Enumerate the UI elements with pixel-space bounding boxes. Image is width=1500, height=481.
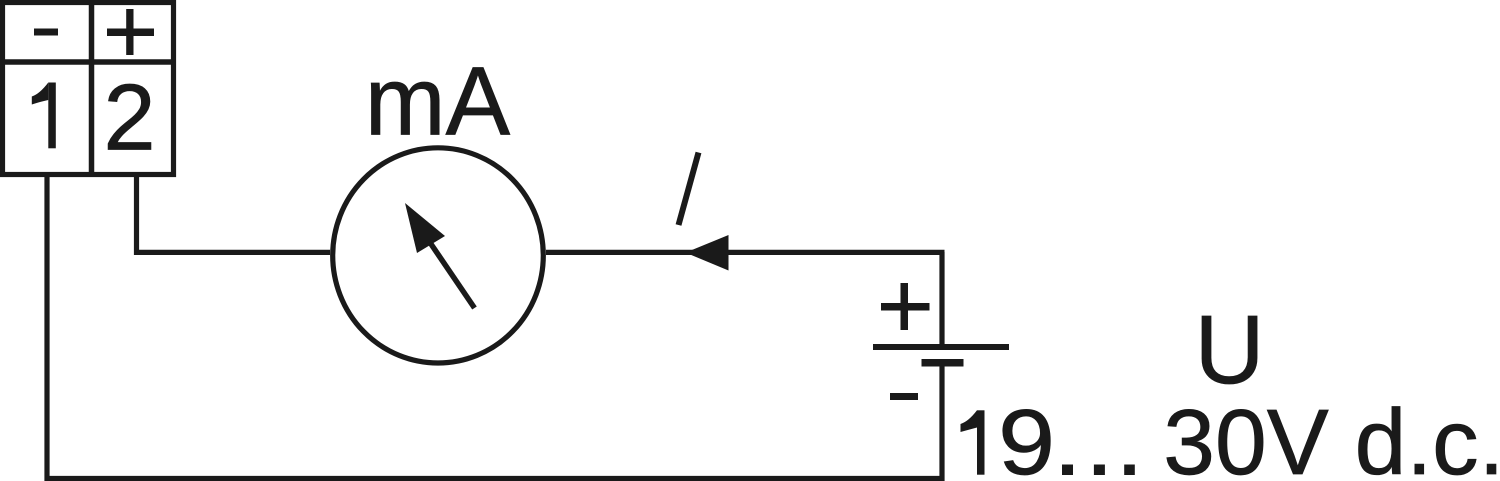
svg-text:U: U — [1194, 295, 1264, 404]
svg-text:9: 9 — [998, 390, 1055, 481]
svg-text:mA: mA — [365, 47, 511, 156]
svg-text:30V d.c.: 30V d.c. — [1163, 390, 1500, 481]
svg-text:2: 2 — [103, 65, 155, 170]
